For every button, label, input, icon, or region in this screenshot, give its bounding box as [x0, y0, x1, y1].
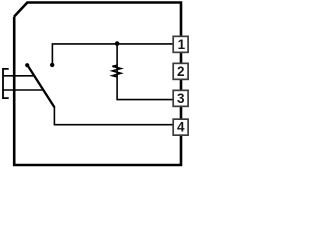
svg-text:4: 4 [177, 120, 185, 135]
svg-text:3: 3 [177, 91, 185, 106]
svg-text:2: 2 [177, 64, 185, 79]
svg-text:1: 1 [178, 37, 186, 52]
